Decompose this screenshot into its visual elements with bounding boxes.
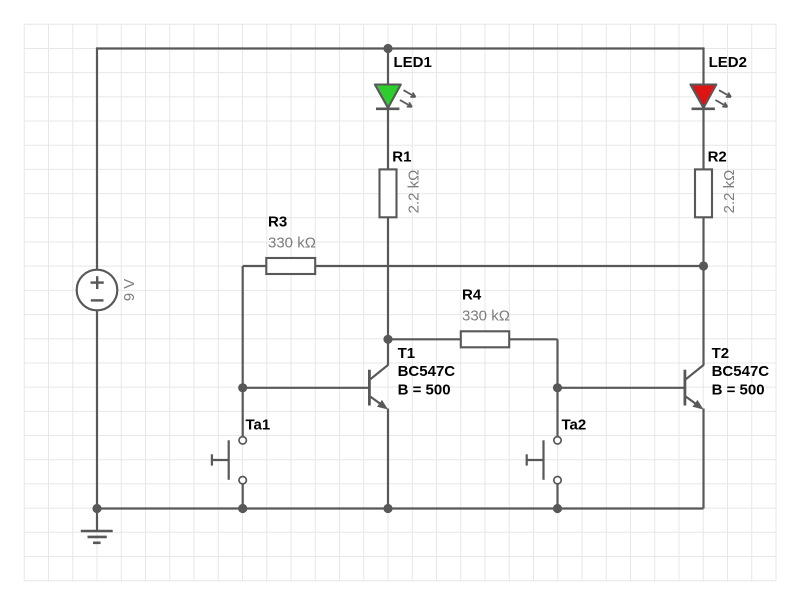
- svg-text:R3: R3: [268, 213, 287, 230]
- svg-text:Ta1: Ta1: [246, 417, 271, 434]
- resistor R3: [266, 258, 315, 274]
- value label R3 330 kOhm: [268, 235, 316, 252]
- battery V1 9V: [77, 270, 118, 311]
- value label R4 330 kOhm: [462, 308, 510, 325]
- pushbutton Ta2: [527, 437, 562, 484]
- wire R2 to T2 collector: [702, 217, 704, 365]
- svg-text:2.2 kΩ: 2.2 kΩ: [721, 170, 738, 214]
- value label 9 V: [121, 279, 138, 302]
- resistor R4: [461, 331, 509, 347]
- svg-text:B = 500: B = 500: [398, 381, 451, 398]
- label T1 BC547C B=500: [398, 345, 456, 398]
- LED LED2 (red): [690, 85, 731, 109]
- label LED1: [394, 54, 432, 71]
- wire LED1 cathode to R1: [387, 110, 389, 169]
- transistor T2 BC547C: [685, 365, 704, 410]
- wire bottom rail: [97, 507, 704, 509]
- svg-text:T1: T1: [398, 345, 416, 362]
- transistor T1 BC547C: [369, 365, 388, 410]
- pushbutton Ta1: [212, 437, 247, 484]
- wire T1 base lead: [243, 387, 369, 389]
- wire R1 to T1 collector: [387, 217, 389, 365]
- svg-text:2.2 kΩ: 2.2 kΩ: [406, 170, 423, 214]
- node right rail / R3 junction: [699, 261, 708, 270]
- wire T2 base lead: [558, 387, 684, 389]
- svg-text:330 kΩ: 330 kΩ: [462, 308, 510, 325]
- node T2 base junction: [553, 383, 562, 392]
- wire T1 collector node to R4: [388, 338, 461, 340]
- wire LED2 cathode to R2: [702, 110, 704, 169]
- svg-text:BC547C: BC547C: [398, 363, 456, 380]
- wire Ta1 bottom lead: [242, 484, 244, 509]
- wire Ta2 top lead: [556, 388, 558, 437]
- node ground junction: [92, 504, 101, 513]
- label T2 BC547C B=500: [712, 345, 770, 398]
- svg-text:B = 500: B = 500: [712, 381, 765, 398]
- wire Ta1 top lead: [242, 388, 244, 437]
- node T1 base junction: [238, 383, 247, 392]
- wire R4 drop to T2 base node: [556, 339, 558, 388]
- svg-text:Ta2: Ta2: [562, 417, 587, 434]
- label Ta1: [246, 417, 271, 434]
- wire left rail lower: [96, 310, 98, 508]
- svg-text:9 V: 9 V: [121, 279, 138, 302]
- svg-text:LED1: LED1: [394, 54, 432, 71]
- wire Ta2 bottom lead: [556, 484, 558, 509]
- LED LED1 (green): [375, 85, 416, 109]
- label R2: [708, 149, 727, 166]
- wire right rail to LED2: [702, 47, 704, 86]
- wire top rail: [97, 47, 704, 49]
- resistor R2: [695, 169, 712, 217]
- svg-text:R2: R2: [708, 149, 727, 166]
- svg-text:R4: R4: [462, 287, 482, 304]
- wire R3 left lead: [243, 265, 267, 267]
- wire R4 right lead: [509, 338, 557, 340]
- label R3: [268, 213, 287, 230]
- wire R3 right lead to right rail: [315, 265, 703, 267]
- ground: [81, 509, 113, 543]
- svg-text:T2: T2: [712, 345, 730, 362]
- value label R1 2.2 kOhm: [406, 170, 423, 214]
- resistor R1: [380, 169, 397, 217]
- wire LED1 anode from top rail: [387, 49, 389, 87]
- svg-text:LED2: LED2: [709, 54, 747, 71]
- wire left rail upper: [96, 47, 98, 270]
- label LED2: [709, 54, 747, 71]
- node T1 collector / R4 junction: [383, 335, 392, 344]
- value label R2 2.2 kOhm: [721, 170, 738, 214]
- node Ta2 bottom junction: [553, 504, 562, 513]
- node top rail / LED1 junction: [383, 44, 392, 53]
- node T1 emitter bottom junction: [383, 504, 392, 513]
- label Ta2: [562, 417, 587, 434]
- label R1: [392, 149, 411, 166]
- wire R3 drop to T1 base node: [242, 266, 244, 388]
- svg-text:R1: R1: [392, 149, 411, 166]
- label R4: [462, 287, 482, 304]
- wire T2 emitter to bottom rail: [702, 409, 704, 509]
- svg-text:BC547C: BC547C: [712, 363, 770, 380]
- node Ta1 bottom junction: [238, 504, 247, 513]
- svg-text:330 kΩ: 330 kΩ: [268, 235, 316, 252]
- wire T1 emitter to bottom rail: [387, 409, 389, 509]
